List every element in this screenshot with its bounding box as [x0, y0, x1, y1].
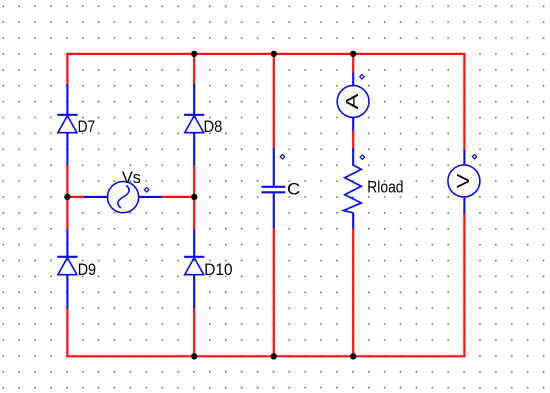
marker diamond C: [280, 154, 285, 159]
wire bottom rail: [66, 355, 465, 357]
diode D10: [184, 230, 232, 309]
marker diamond Rload: [360, 155, 365, 160]
wire ammeter to Rload segment: [352, 130, 354, 149]
junction node Vs left: [64, 194, 70, 200]
marker diamond Vs: [144, 188, 149, 193]
ammeter U1: [337, 73, 369, 131]
wire capacitor branch lower: [273, 228, 275, 358]
wire top rail: [66, 53, 465, 55]
wire ammeter branch top: [352, 53, 354, 73]
wire left rail upper (top rail to D7): [66, 53, 68, 85]
wire middle rail middle (D8 to Vs node): [193, 165, 195, 231]
marker diamond voltmeter: [472, 154, 477, 159]
diode D8: [184, 84, 222, 165]
wire Rload to bottom rail: [352, 228, 354, 357]
wire left rail middle (D7 to Vs node): [66, 165, 68, 231]
junction node Vs right: [191, 194, 197, 200]
ac source Vs: [84, 169, 162, 213]
svg-text:A: A: [342, 93, 362, 109]
svg-text:D10: D10: [204, 261, 232, 279]
wire right rail lower (voltmeter to bottom rail): [463, 213, 465, 357]
junction node bottom Rload branch: [350, 353, 356, 359]
voltmeter U2: [448, 150, 480, 214]
svg-text:D9: D9: [78, 261, 96, 279]
wire left rail lower (D9 to bottom rail): [66, 308, 68, 358]
wire Vs right segment: [161, 196, 194, 198]
wire middle rail upper (top rail to D8): [193, 53, 195, 85]
resistor Rload: [344, 148, 404, 228]
svg-text:C: C: [287, 181, 301, 199]
junction node top capacitor branch: [271, 51, 277, 57]
svg-text:D7: D7: [78, 118, 96, 136]
diode D7: [57, 84, 95, 165]
marker diamond ammeter: [360, 75, 365, 80]
capacitor C: [262, 148, 301, 228]
wire right rail upper (top rail to voltmeter): [463, 53, 465, 150]
junction node bottom capacitor branch: [271, 353, 277, 359]
svg-text:Vs: Vs: [122, 169, 141, 187]
junction node top D8 branch: [191, 51, 197, 57]
wire middle rail lower (D10 to bottom rail): [193, 308, 195, 358]
junction node top ammeter branch: [350, 51, 356, 57]
wire capacitor branch upper: [273, 53, 275, 149]
svg-text:Rload: Rload: [367, 179, 403, 197]
diode D9: [57, 230, 96, 309]
svg-text:V: V: [453, 173, 473, 188]
junction node bottom D10 branch: [191, 353, 197, 359]
svg-text:D8: D8: [204, 118, 223, 136]
wire Vs left segment: [67, 196, 84, 198]
